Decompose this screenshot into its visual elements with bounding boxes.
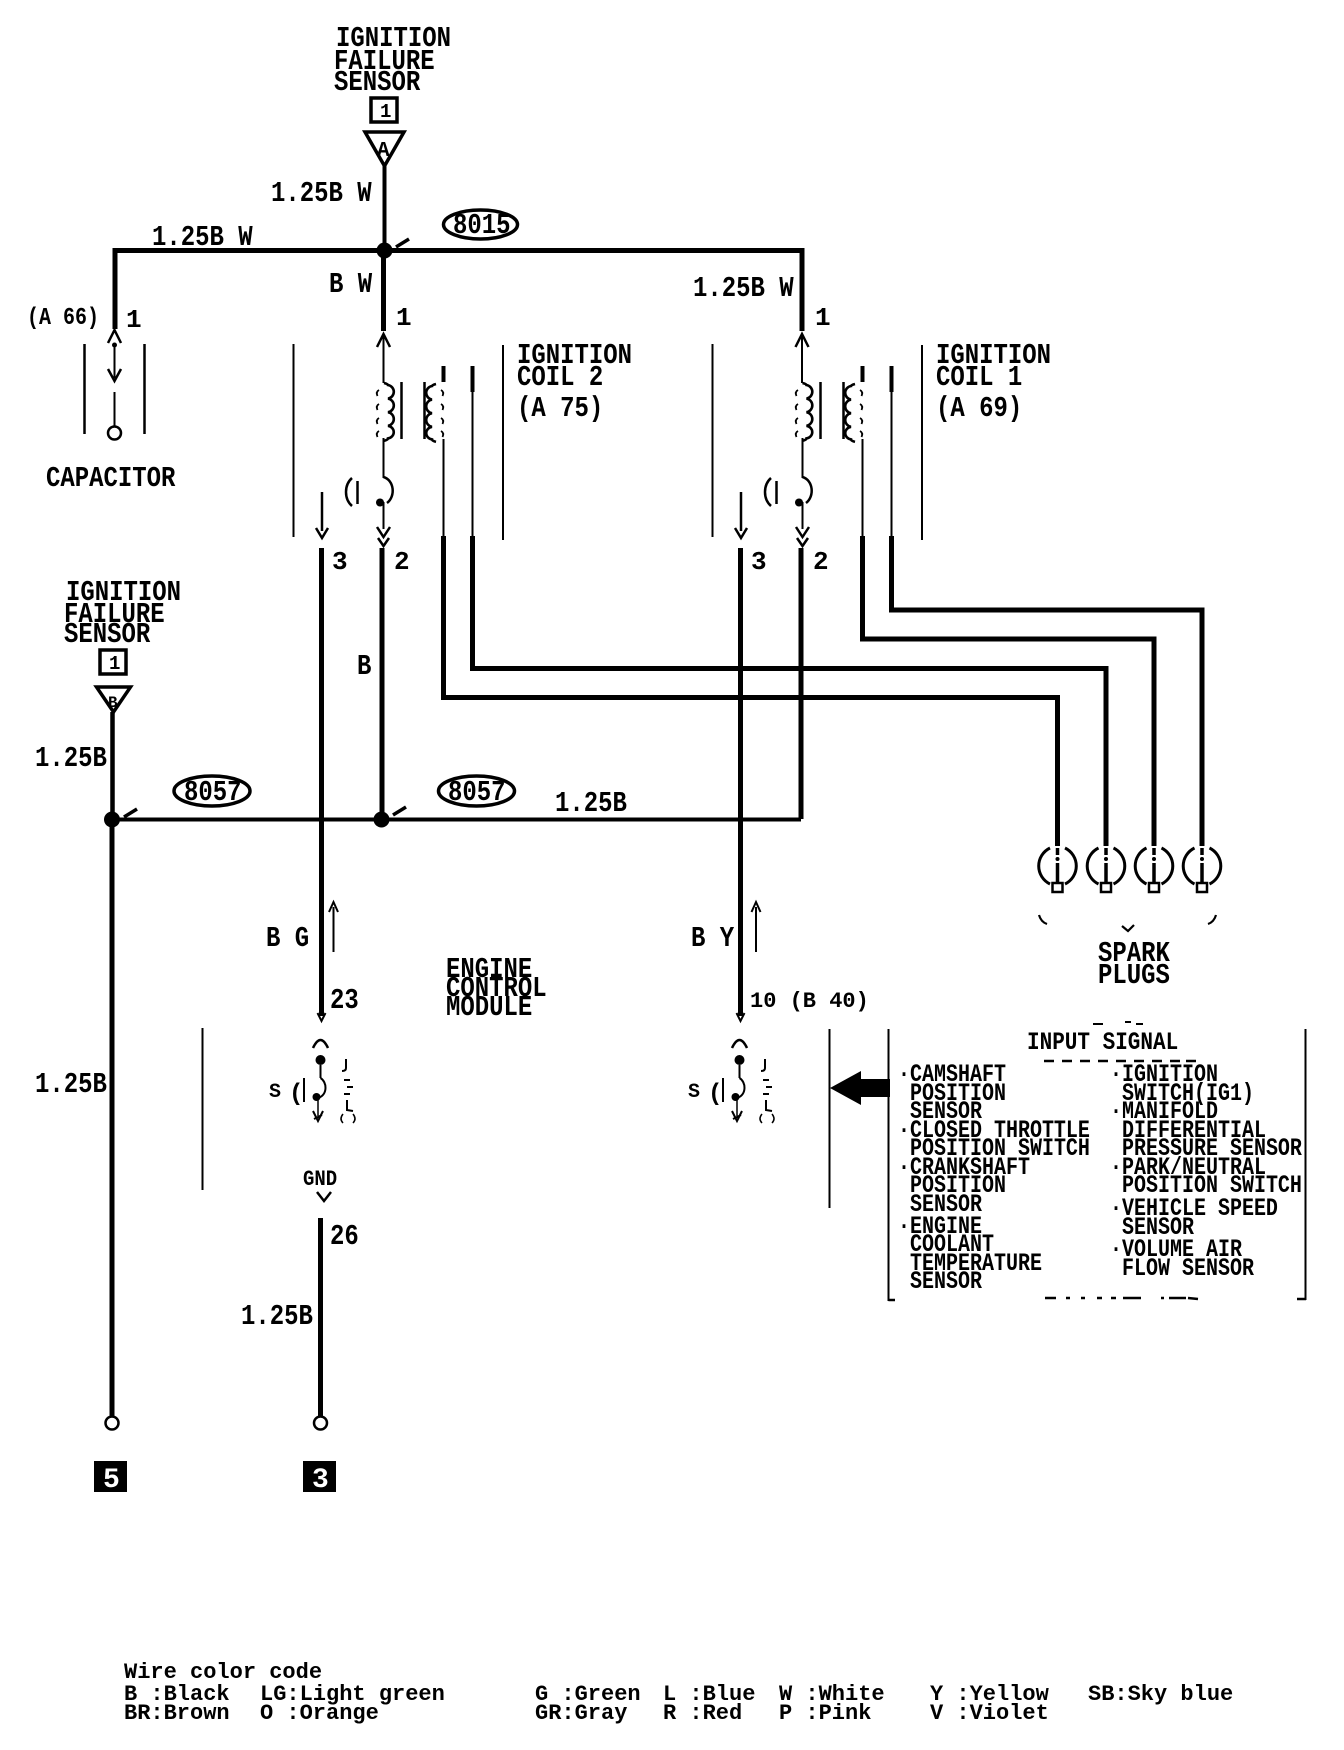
svg-text:(: ( [289,1081,303,1108]
wire spark plug 1 [444,536,1058,846]
wire coil2 pin3 B-G [319,548,324,1016]
connector box 3 (black) [303,1461,336,1496]
ECM connector symbol pin 10 [688,1040,774,1123]
coil1 core line 1 [819,382,822,439]
wire ground horizontal 1.25B [112,818,801,822]
coil1 pin3 arrow [735,528,747,538]
svg-text:1: 1 [126,305,142,335]
svg-text:1: 1 [815,303,831,333]
coil1 secondary top lead [861,366,865,382]
connector box 1 (sensor A) [371,98,397,123]
coil2 secondary top lead [442,366,446,382]
ignition failure sensor (top) label [334,22,451,98]
input box left line 1 [829,1029,831,1208]
splice tick mark mid [393,807,406,815]
svg-text:(A 66): (A 66) [27,305,99,332]
coil1 splice paren [765,478,771,506]
wire coil1 drop [800,248,805,331]
svg-text:COIL 1: COIL 1 [936,361,1022,393]
input box left line 2 [888,1029,890,1301]
coil2 splice hop arc [384,477,393,503]
terminal circle mid rail [314,1417,327,1430]
wire spark plug 4 [892,536,1203,846]
wire left rail to bottom [110,819,115,1416]
pin 23 wire end arrow [318,1013,326,1021]
svg-text:(A 69): (A 69) [936,392,1022,424]
coil2 secondary lead thin 1 [443,439,445,536]
triangle A (sensor A) [365,132,404,166]
wire sensor A drop [383,166,387,253]
svg-text:23: 23 [330,984,359,1016]
coil1 splice hop arc [803,477,812,503]
svg-text:CAPACITOR: CAPACITOR [46,462,176,494]
wire left drop to capacitor [113,248,118,329]
label ENGINE CONTROL MODULE [446,953,547,1023]
connector 8015 ellipse [444,209,518,241]
svg-text:BR:Brown: BR:Brown [124,1701,230,1726]
coil1 secondary winding [845,384,855,442]
coil2 core line 2 [423,382,426,439]
svg-text:10 (B 40): 10 (B 40) [750,989,869,1014]
splice tick mark left [124,809,137,817]
wire coil1 pin2 black [799,548,804,819]
wire GND drop [318,1218,323,1416]
svg-text:V :Violet: V :Violet [930,1701,1049,1726]
svg-text:1: 1 [396,303,412,333]
svg-text:1.25B: 1.25B [241,1300,313,1332]
svg-text:1.25B: 1.25B [35,1068,107,1100]
title underline dashes [1044,1060,1196,1063]
svg-text:1.25B: 1.25B [555,787,627,819]
triangle B (sensor B) [97,687,131,712]
svg-text:2: 2 [394,547,410,577]
coil1 secondary winding remnant [860,390,862,437]
svg-text:SENSOR: SENSOR [334,66,421,98]
input list right column [1110,1060,1302,1283]
svg-text:1.25B: 1.25B [35,742,107,774]
title top dashes [1093,1022,1143,1024]
label ignition coil 2 [517,339,632,424]
arrow up at pin 23 [329,902,338,952]
coil2 bracket left [293,344,295,537]
svg-text:3: 3 [312,1465,329,1496]
svg-text:P :Pink: P :Pink [779,1701,871,1726]
svg-text:B W: B W [329,268,372,300]
ECM connector symbol pin 23 [269,1040,355,1123]
label SPARK PLUGS [1098,937,1170,991]
coil2 pin2 lead [383,502,385,529]
big black arrow [830,1071,890,1105]
coil2 core line 1 [400,382,403,439]
coil2 secondary winding [426,384,436,442]
svg-text:1.25B W: 1.25B W [271,177,372,209]
wire coil2 drop [381,248,386,331]
pin 10 wire end arrow [737,1013,745,1021]
GND chevron [317,1192,331,1201]
coil2 secondary lead thin 2 [471,366,475,536]
wire sensor B drop [110,712,115,822]
coil1 pin1 arrow up [796,334,809,347]
svg-text:(A 75): (A 75) [517,392,603,424]
coil2 primary top lead [383,336,385,383]
coil1 secondary lead thin 2 [890,366,894,536]
svg-text:PLUGS: PLUGS [1098,959,1170,991]
svg-text:O :Orange: O :Orange [260,1701,379,1726]
coil2 bracket right [502,345,504,540]
coil1 pin3 lead [740,492,743,531]
label ignition coil 1 [936,339,1051,424]
svg-text:GR:Gray: GR:Gray [535,1701,627,1726]
capacitor bracket right [143,344,146,434]
junction node left 8057 [104,812,120,828]
svg-text:B: B [357,650,372,682]
svg-text:A: A [377,140,390,163]
spark plug 4 [1183,848,1221,892]
svg-text:3: 3 [332,547,348,577]
coil2 primary winding remnant [377,390,379,437]
svg-text:5: 5 [103,1465,120,1496]
connector box 5 (black) [94,1461,127,1496]
svg-text:B: B [108,694,118,712]
legend wire color code [124,1660,1233,1726]
svg-text:8057: 8057 [448,776,506,808]
op coil1 primary winding [803,383,813,441]
spark plug 1 [1039,848,1077,892]
input box bottom dashes [1045,1298,1198,1299]
connector box 1 (sensor B) [100,650,126,675]
coil1 primary winding remnant [796,390,798,437]
splice tick mark [396,239,409,247]
coil2 pin3 lead [321,492,324,531]
svg-text:SB:Sky blue: SB:Sky blue [1088,1682,1233,1707]
coil1 pin2 arrows [796,527,809,546]
input box right line [889,1029,1307,1300]
svg-text:GND: GND [303,1168,337,1193]
svg-text:3: 3 [751,547,767,577]
svg-text:2: 2 [813,547,829,577]
coil2 splice bar [356,481,359,504]
coil1 secondary lead thin 1 [862,439,864,536]
capacitor lead wire [114,346,116,378]
svg-text:SENSOR: SENSOR [64,618,151,650]
svg-text:B G: B G [266,922,309,954]
svg-text:26: 26 [330,1220,359,1252]
wire spark plug 2 [473,536,1107,846]
ECM boundary line [202,1028,204,1190]
svg-text:1: 1 [380,101,391,123]
arrow up at pin 10 [752,902,761,952]
svg-text:S: S [269,1081,281,1104]
capacitor terminal circle [108,427,121,440]
coil2 splice paren [346,478,352,506]
connector 8057 ellipse 2 [439,776,515,809]
coil2 primary bottom lead [383,438,385,478]
svg-text:B Y: B Y [691,922,734,954]
capacitor bracket left [83,344,86,434]
wire spark plug 3 [863,536,1155,846]
svg-text:(: ( [708,1081,722,1108]
coil1 splice bar [775,481,778,504]
spark plug 2 [1087,848,1125,892]
coil1 primary top lead [801,336,803,383]
capacitor arrow down [108,369,121,381]
svg-text:FLOW SENSOR: FLOW SENSOR [1122,1254,1254,1283]
spark plug 3 [1135,848,1173,892]
coil2 pin3 arrow [316,528,328,538]
op coil2 primary winding [384,383,394,441]
junction node mid 8057 [374,812,390,828]
coil1 bracket right [921,345,923,540]
svg-text:8015: 8015 [453,209,511,241]
svg-text:MODULE: MODULE [446,991,532,1023]
coil1 pin2 lead [802,502,804,529]
coil2 pin1 arrow up [377,334,390,347]
coil2 secondary winding remnant [441,390,443,437]
input list left column [898,1060,1090,1296]
coil1 core line 2 [842,382,845,439]
capacitor lead wire lower [114,392,116,426]
coil1 bracket left [712,344,714,537]
svg-text:S: S [688,1081,700,1104]
wire coil2 pin2 black [380,548,385,819]
coil2 pin2 arrows [377,527,390,546]
svg-text:INPUT SIGNAL: INPUT SIGNAL [1027,1028,1178,1056]
svg-text:R :Red: R :Red [663,1701,742,1726]
svg-text:COIL 2: COIL 2 [517,361,603,393]
svg-text:8057: 8057 [184,776,242,808]
svg-text:SENSOR: SENSOR [910,1267,982,1296]
ignition failure sensor (left) label [64,576,181,650]
terminal circle left rail [106,1417,119,1430]
spark plugs brace [1039,915,1216,931]
capacitor connector arrow up [108,330,121,343]
junction node at sensor A [377,243,393,259]
wire main horizontal 1.25B W [113,248,804,253]
svg-text:1.25B W: 1.25B W [693,272,794,304]
coil1 splice dot [795,499,803,507]
connector 8057 ellipse 1 [174,776,250,809]
coil2 splice dot [376,499,384,507]
svg-text:1: 1 [109,653,120,675]
coil1 primary bottom lead [802,438,804,478]
wire coil1 pin3 B-Y [738,548,743,1016]
